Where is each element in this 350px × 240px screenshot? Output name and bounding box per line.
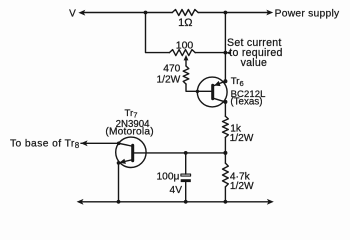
svg-text:100: 100 bbox=[176, 39, 194, 51]
svg-text:1/2W: 1/2W bbox=[157, 74, 181, 85]
svg-text:1/2W: 1/2W bbox=[230, 181, 254, 192]
svg-text:100μ: 100μ bbox=[157, 172, 180, 183]
svg-text:To base of Tr8: To base of Tr8 bbox=[10, 138, 80, 150]
svg-text:V: V bbox=[69, 9, 76, 20]
svg-text:1Ω: 1Ω bbox=[178, 17, 192, 29]
svg-text:4V: 4V bbox=[170, 185, 183, 196]
svg-text:(Motorola): (Motorola) bbox=[105, 127, 153, 138]
svg-text:Tr6: Tr6 bbox=[231, 76, 244, 88]
svg-text:470: 470 bbox=[163, 64, 180, 75]
svg-text:(Texas): (Texas) bbox=[230, 97, 262, 108]
svg-text:1/2W: 1/2W bbox=[230, 133, 254, 144]
svg-text:value: value bbox=[241, 57, 268, 69]
svg-text:Power supply: Power supply bbox=[275, 8, 340, 19]
